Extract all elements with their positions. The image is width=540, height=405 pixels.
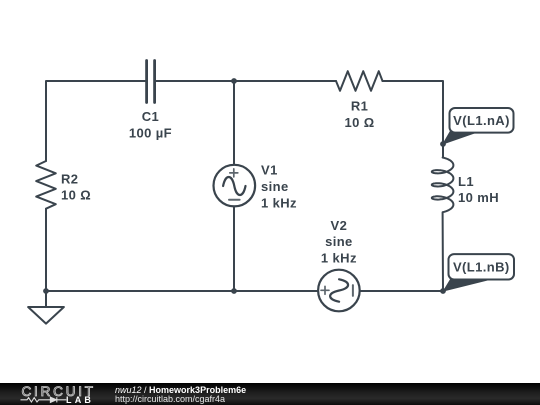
svg-text:10 mH: 10 mH: [458, 190, 499, 205]
wire R1 right lead to top-right corner down to node V(L1.nA): [383, 81, 444, 144]
svg-text:V1: V1: [261, 163, 278, 178]
probe flag V(L1.nA): [443, 108, 514, 144]
svg-text:C1: C1: [142, 109, 159, 124]
node L1.nB: [440, 288, 446, 294]
junction node: ground rail at R2: [43, 288, 49, 294]
probe flag V(L1.nB): [444, 254, 515, 291]
svg-text:V(L1.nB): V(L1.nB): [453, 260, 510, 275]
wire node A to R1 left lead: [234, 80, 336, 82]
svg-text:100 µF: 100 µF: [129, 126, 172, 141]
wire C1 right plate to node A: [156, 80, 234, 82]
footer bar: [0, 383, 540, 405]
svg-text:1 kHz: 1 kHz: [321, 250, 357, 265]
svg-text:R1: R1: [351, 99, 368, 114]
svg-text:V(L1.nA): V(L1.nA): [453, 113, 510, 128]
ground symbol: [28, 291, 64, 324]
node L1.nA: [440, 141, 446, 147]
inductor L1: [432, 144, 454, 291]
CircuitLab logo underline with resistor and diode: [0, 383, 110, 405]
footer line 1: nwu12 / Homework3Problem6e: [115, 385, 246, 395]
capacitor C1: [147, 61, 155, 103]
footer line 2: url: [115, 394, 225, 404]
svg-text:sine: sine: [325, 234, 353, 249]
CircuitLab logo LAB: [66, 396, 94, 405]
voltage source V2 (sine): [318, 270, 360, 312]
junction node A (top, V1/C1/R1): [231, 78, 237, 84]
svg-text:10 Ω: 10 Ω: [345, 115, 375, 130]
voltage source V1 (sine): [214, 165, 256, 207]
wire bottom rail: ground junction to V2 left lead: [46, 290, 318, 292]
CircuitLab logo CIRCUIT: [22, 385, 96, 399]
wire top-left rail: left corner to C1 left plate: [46, 81, 145, 161]
svg-text:L1: L1: [458, 174, 474, 189]
svg-text:10 Ω: 10 Ω: [61, 187, 91, 202]
resistor R2: [36, 161, 56, 209]
resistor R1: [336, 71, 383, 91]
wire V1 bottom lead: [233, 206, 235, 291]
wire V2 right lead to node V(L1.nB): [360, 290, 443, 292]
wire V1 top lead: [233, 81, 235, 165]
svg-text:1 kHz: 1 kHz: [261, 196, 297, 211]
junction node: bottom rail at V1: [231, 288, 237, 294]
svg-text:V2: V2: [331, 218, 348, 233]
svg-text:sine: sine: [261, 179, 289, 194]
wire R2 bottom lead to ground junction: [45, 209, 47, 291]
svg-text:R2: R2: [61, 171, 78, 186]
